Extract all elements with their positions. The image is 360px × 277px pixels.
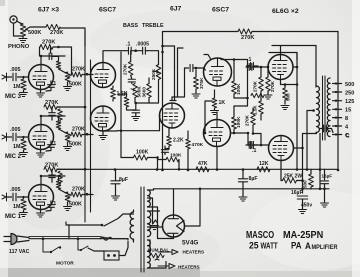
svg-text:.005: .005 — [10, 127, 21, 133]
wire 270K top to tube plate node — [40, 46, 72, 75]
label .1 lower — [252, 148, 256, 154]
label HEATERS one — [183, 250, 205, 255]
tone bottom capacitor — [132, 103, 140, 121]
tube 6SC7 inverter lower — [204, 120, 231, 147]
svg-text:A: A — [305, 241, 311, 252]
wire 270K to channel bus — [60, 28, 85, 46]
wire inter bus y166.3 — [57, 168, 86, 171]
plate resistor MIC 3 — [40, 55, 65, 73]
svg-text:500K: 500K — [28, 30, 41, 36]
wire inverter grid feed — [204, 101, 212, 134]
tube 6J7 MIC 3 — [29, 65, 54, 90]
tap 125 — [333, 99, 355, 105]
wire B plus rail A — [57, 168, 338, 171]
tube 6L6G upper — [268, 55, 293, 80]
tube 6SC7a lower — [91, 106, 116, 131]
coupling cap inter y104 — [49, 107, 55, 120]
svg-text:100K: 100K — [136, 150, 149, 156]
svg-text:.0005: .0005 — [136, 42, 149, 48]
svg-text:3600: 3600 — [142, 87, 147, 98]
svg-text:2.2K: 2.2K — [173, 138, 184, 144]
svg-text:470K: 470K — [192, 142, 204, 148]
svg-text:WATT: WATT — [261, 243, 279, 251]
svg-text:25K 2W: 25K 2W — [284, 174, 302, 180]
svg-text:270K: 270K — [270, 80, 275, 92]
wire B+ feeds — [306, 109, 322, 189]
output transformer core — [323, 76, 326, 140]
wire screen top link — [269, 53, 297, 61]
label 270K inter y166.3 — [45, 162, 58, 168]
label .1 MIC 1 — [52, 201, 56, 207]
label .005 MIC 3 — [10, 67, 21, 73]
svg-text:8µF: 8µF — [119, 177, 128, 183]
label 100K upper vert — [236, 83, 242, 95]
label 3600 vert — [142, 87, 147, 98]
svg-text:270K: 270K — [245, 114, 250, 126]
wire 6SC7 plate to coupling — [217, 60, 248, 134]
fuse holder — [88, 242, 128, 261]
wire mid drops — [216, 147, 218, 170]
svg-text:MIC 1: MIC 1 — [5, 214, 22, 220]
screen resistor 500 — [281, 85, 289, 110]
svg-text:MIC 3: MIC 3 — [5, 94, 22, 100]
cathode resistor 1.5K 6SC7 — [111, 86, 116, 101]
phono jack J4 — [10, 16, 21, 23]
svg-text:270K: 270K — [45, 162, 58, 168]
capacitor .0005 treble — [134, 47, 147, 54]
svg-text:270K: 270K — [72, 67, 85, 73]
plate bypass cap phono — [49, 47, 57, 60]
wire mixing bus — [84, 30, 91, 222]
coupling capacitor .005 MIC 3 — [7, 73, 23, 81]
tube 6J7 driver — [160, 103, 185, 128]
svg-text:500K: 500K — [69, 202, 82, 208]
power transformer rectifier fil winding — [148, 211, 151, 237]
wire bus to 6SC7 grids — [103, 51, 125, 63]
label 270K mix MIC 3 — [72, 67, 85, 73]
svg-text:250: 250 — [345, 90, 354, 96]
wire 6L6 cathode upper — [281, 80, 299, 86]
svg-text:125: 125 — [345, 99, 354, 105]
power transformer primary — [130, 210, 133, 242]
volume pot 500K MIC 2 — [64, 132, 72, 151]
label 6J7 second — [170, 6, 182, 13]
label 270K bias b vert — [270, 80, 275, 92]
label .1 MIC 3 — [52, 81, 56, 87]
label MIC 1 — [5, 214, 22, 220]
wire screen rail — [293, 53, 298, 170]
capacitor 16uF one — [297, 196, 307, 214]
svg-text:6J7 ×3: 6J7 ×3 — [38, 7, 59, 14]
svg-text:HEATERS: HEATERS — [183, 250, 205, 255]
plate resistor 100K lower — [232, 106, 237, 133]
wire AC line — [29, 237, 133, 240]
tube 6L6G lower — [269, 136, 294, 161]
label .1 MIC 2 — [52, 141, 56, 147]
resistor 270K bias lower — [251, 108, 256, 135]
svg-text:270K: 270K — [122, 63, 127, 75]
grid resistor 1M MIC 2 — [20, 137, 28, 157]
svg-text:450v: 450v — [301, 203, 312, 209]
tube 6SC7a upper — [91, 63, 116, 88]
svg-text:270K: 270K — [50, 30, 63, 36]
resistor 270K phono series — [46, 24, 60, 29]
label 270K bias c vert — [245, 114, 250, 126]
label 450v — [301, 203, 312, 209]
wire cap to grid MIC 1 — [22, 196, 28, 198]
resistor 270K bias upper b — [264, 67, 272, 99]
wire top rail drop — [337, 32, 340, 172]
tap 500 — [333, 82, 355, 88]
heater arrow two — [158, 264, 175, 269]
svg-text:500: 500 — [303, 180, 308, 188]
label 100K filter 1 — [136, 150, 149, 156]
label 270K mix MIC 1 — [72, 187, 85, 193]
tube 6J7 MIC 2 — [29, 125, 54, 150]
label 16uF one — [291, 190, 303, 196]
svg-text:MIC 2: MIC 2 — [5, 154, 22, 160]
resistor 100K filter 1 — [134, 155, 158, 160]
resistor 270K bias upper a — [259, 67, 264, 91]
cathode resistor 1K — [211, 90, 219, 115]
feedback capacitor — [320, 125, 333, 132]
title line 2 — [249, 240, 338, 252]
wire tone links — [127, 80, 159, 111]
wire upper plate rail — [272, 46, 316, 88]
fuse on line — [100, 237, 128, 240]
label 500K MIC 1 — [69, 202, 82, 208]
svg-text:6L6G ×2: 6L6G ×2 — [272, 8, 299, 15]
tap 15 — [333, 108, 352, 114]
cathode capacitor MIC 1 — [46, 201, 54, 211]
svg-text:.1: .1 — [52, 141, 56, 147]
label 6L6G x2 — [272, 8, 299, 15]
treble pot 250K — [147, 51, 161, 80]
svg-text:6J7: 6J7 — [170, 6, 182, 13]
ground phono pot — [19, 36, 27, 43]
label 1M MIC 3 — [13, 84, 21, 90]
coupling cap 6J7 to inverter — [190, 64, 199, 71]
svg-text:1M: 1M — [13, 144, 21, 150]
wire plug vertical — [68, 225, 70, 239]
label 6J7 x3 — [38, 7, 59, 14]
wire tone to driver top cap — [161, 45, 176, 101]
wire rectifier output — [174, 189, 201, 226]
hum balance pot — [148, 240, 167, 268]
resistor 3600 — [147, 78, 152, 98]
svg-text:.005: .005 — [10, 67, 21, 73]
mix resistor 270K MIC 2 — [71, 132, 93, 137]
label 25K 2W — [284, 174, 302, 180]
svg-text:8: 8 — [345, 116, 348, 122]
wire 6J7 plate lead — [172, 68, 189, 100]
bass mid capacitor — [128, 75, 135, 83]
svg-text:16µF: 16µF — [322, 174, 333, 179]
power transformer heater winding — [148, 240, 151, 268]
tube ground MIC 1 — [37, 210, 45, 218]
label 6SC7 first — [99, 7, 116, 14]
label 270K bass vert — [122, 63, 127, 75]
resistor 500 ohm — [309, 169, 314, 189]
coupling capacitor .005 MIC 2 — [7, 133, 23, 141]
wire cap to grid MIC 2 — [22, 136, 28, 138]
svg-text:TREBLE: TREBLE — [142, 23, 164, 29]
svg-text:47K: 47K — [198, 161, 208, 167]
label 500K MIC 3 — [69, 82, 82, 88]
label 500K — [28, 30, 41, 36]
resistor 25K 2W — [281, 161, 304, 184]
svg-text:270K: 270K — [42, 40, 55, 46]
resistor 375K inverter grid — [192, 67, 200, 98]
resistor 270K inter at y104 — [44, 104, 57, 109]
svg-text:270K: 270K — [241, 35, 254, 41]
svg-text:375K: 375K — [199, 77, 205, 89]
potentiometer R1 500K — [20, 24, 34, 36]
label 1M MIC 2 — [13, 144, 21, 150]
label 1M MIC 1 — [13, 204, 21, 210]
tube 6SC7 inverter upper — [204, 58, 232, 86]
label 270K bias a vert — [253, 80, 258, 92]
label 270K top rail — [241, 35, 254, 41]
volume pot 500K MIC 3 — [64, 72, 72, 91]
label C feedback — [346, 133, 351, 139]
svg-text:.1: .1 — [52, 201, 56, 207]
svg-text:270K: 270K — [72, 187, 85, 193]
wire fil winding to tube — [148, 211, 163, 227]
coupling cap .1 lower — [248, 141, 258, 148]
grid cap lower 6L6 — [246, 134, 268, 149]
input jack MIC 1 — [2, 193, 7, 201]
wire AC upper branch — [66, 214, 134, 226]
resistor 1M inter y104 — [57, 107, 62, 123]
label 1.5K bias vert — [253, 105, 258, 115]
resistor 270K grid top — [40, 44, 53, 49]
label 117 VAC — [9, 249, 30, 255]
heater arrow one — [158, 250, 178, 255]
resistor 47K — [196, 167, 209, 172]
svg-text:MPLIFIER: MPLIFIER — [312, 244, 338, 252]
HV center tap ground — [148, 198, 159, 230]
label .005 MIC 2 — [10, 127, 21, 133]
grid resistor 1M MIC 1 — [20, 197, 28, 217]
label 6SC7 second — [212, 7, 229, 14]
label 270K phono — [50, 30, 63, 36]
rectifier tube 5V4G — [163, 215, 185, 237]
ground 6SC7 lower — [99, 131, 107, 140]
wire filter junction — [156, 156, 159, 169]
bias resistor driver — [158, 157, 181, 170]
svg-text:270K: 270K — [253, 80, 258, 92]
power transformer HV winding — [148, 190, 151, 207]
motor switch two — [78, 239, 88, 251]
label HEATERS two — [178, 265, 200, 270]
svg-text:1M: 1M — [13, 204, 21, 210]
label 1.5K — [117, 91, 128, 97]
label 500 ohm vert — [303, 180, 308, 188]
title line 1 — [246, 229, 323, 241]
capacitor 8uF two — [238, 169, 247, 201]
wire HV to plates — [148, 189, 174, 239]
label .1 bass — [126, 42, 130, 48]
svg-text:500: 500 — [286, 93, 291, 101]
label 250K treble vert — [151, 68, 156, 80]
label 375K vert — [199, 77, 205, 89]
svg-text:500K: 500K — [69, 142, 82, 148]
tap 4 — [333, 124, 349, 130]
svg-text:500K: 500K — [69, 82, 82, 88]
svg-text:MA-25PN: MA-25PN — [283, 229, 323, 241]
resistor 470K driver — [186, 131, 191, 171]
wire 6SC7 lower plate down — [103, 130, 117, 132]
label 500K MIC 2 — [69, 142, 82, 148]
label .1 upper — [247, 57, 251, 63]
svg-text:PA: PA — [291, 240, 302, 251]
label .0005 — [136, 42, 149, 48]
volume pot 500K MIC 1 — [64, 192, 72, 211]
svg-text:12K: 12K — [259, 161, 269, 167]
label MOTOR — [56, 260, 74, 266]
mix resistor 270K MIC 3 — [71, 72, 93, 77]
resistor 1.5K bias — [259, 91, 264, 120]
input jack MIC 2 — [2, 133, 7, 141]
svg-text:8µF: 8µF — [249, 176, 258, 182]
wire inverter couplings — [233, 65, 249, 135]
output transformer primary — [316, 86, 319, 134]
svg-text:HEATERS: HEATERS — [178, 265, 200, 270]
wire B plus rail B — [154, 188, 330, 191]
label TREBLE — [142, 23, 164, 29]
svg-text:.1: .1 — [247, 57, 251, 63]
svg-text:MOTOR: MOTOR — [56, 260, 74, 266]
tube 6J7 MIC 1 — [29, 185, 54, 210]
svg-text:5V4G: 5V4G — [182, 240, 198, 247]
wire top rail — [161, 32, 338, 172]
resistor 12K — [257, 167, 270, 172]
svg-text:500: 500 — [345, 82, 354, 88]
svg-text:117 VAC: 117 VAC — [9, 249, 30, 255]
label BASS — [123, 23, 138, 29]
power switch — [43, 239, 61, 254]
svg-text:PHONO: PHONO — [8, 44, 30, 50]
svg-text:15: 15 — [345, 108, 351, 114]
grid cap upper 6L6 — [246, 64, 269, 71]
svg-text:6SC7: 6SC7 — [212, 7, 229, 14]
resistor 1M inter y166.3 — [57, 169, 62, 185]
tap 250 — [333, 90, 355, 96]
wire lower plate to primary — [294, 134, 317, 194]
svg-text:3.5K: 3.5K — [118, 92, 128, 97]
wire inverter grid — [200, 68, 206, 70]
label 270K inter y104 — [45, 100, 58, 106]
coupling cap .1 upper — [248, 62, 259, 69]
svg-text:1M: 1M — [13, 84, 21, 90]
capacitor .1 bass — [125, 47, 135, 54]
label 2.2K driver — [173, 138, 184, 144]
label 12K — [259, 161, 269, 167]
label 5V4G — [182, 240, 198, 247]
wire inter bus y104 — [57, 106, 86, 109]
plate resistor MIC 1 — [40, 175, 65, 193]
svg-text:100K: 100K — [236, 116, 242, 128]
grid resistor 1M MIC 3 — [20, 77, 28, 97]
svg-text:MASCO: MASCO — [246, 229, 274, 240]
label 3.5K tone — [118, 92, 128, 97]
svg-text:.1: .1 — [52, 81, 56, 87]
label 470K — [192, 142, 204, 148]
coupling cap inter y166.3 — [49, 169, 55, 182]
bass pot 270K — [128, 51, 133, 76]
resistor 270K inter at y166.3 — [44, 167, 57, 172]
plate resistor MIC 2 — [40, 115, 65, 133]
svg-text:500K: 500K — [136, 86, 141, 98]
capacitor 8uF one — [111, 169, 120, 200]
svg-text:25: 25 — [249, 240, 259, 251]
wire first stage to driver grid — [117, 116, 160, 131]
label 270K grid top — [42, 40, 55, 46]
label MIC 2 — [5, 154, 22, 160]
label .005 MIC 1 — [10, 187, 21, 193]
label 270K mix MIC 2 — [72, 127, 85, 133]
plate resistor 100K upper — [232, 58, 237, 98]
resistor bias mid — [251, 93, 264, 97]
cathode resistor 2.2K driver — [167, 128, 172, 149]
svg-text:100K: 100K — [236, 83, 242, 95]
capacitor 16uF two — [321, 169, 329, 207]
label HUM BAL — [148, 248, 169, 253]
svg-text:BASS: BASS — [123, 23, 138, 29]
resistor 270K top rail — [238, 29, 252, 34]
grid cap lead 6SC7 — [204, 55, 211, 60]
label MIC 3 — [5, 94, 22, 100]
label 500 screen vert — [286, 93, 291, 101]
label PHONO — [8, 44, 30, 50]
power transformer core — [141, 187, 144, 272]
tube ground MIC 3 — [37, 90, 45, 98]
cathode capacitor MIC 2 — [46, 141, 54, 151]
svg-text:.1: .1 — [126, 42, 130, 48]
svg-text:C: C — [345, 133, 349, 139]
label 16uF two — [322, 174, 333, 179]
label 1K — [219, 100, 226, 106]
wire jack to pot — [14, 23, 24, 36]
tap 8 — [333, 116, 349, 122]
label 100K driver — [170, 153, 182, 159]
svg-text:270K: 270K — [72, 127, 85, 133]
svg-text:250K: 250K — [151, 68, 156, 80]
wire pot wiper to 270K — [34, 26, 46, 28]
svg-text:6SC7: 6SC7 — [99, 7, 116, 14]
cathode capacitor MIC 3 — [46, 81, 54, 91]
wire driver top cap second — [178, 48, 184, 97]
AC plug — [4, 234, 29, 245]
mix resistor 270K MIC 1 — [71, 192, 93, 197]
input jack MIC 3 — [2, 73, 7, 81]
wire inverter lower plate — [247, 132, 250, 145]
svg-text:.1: .1 — [252, 148, 256, 154]
resistor 3.5K tone — [124, 93, 129, 107]
label 8uF two — [249, 176, 258, 182]
wire bus bottom to switch rail — [65, 222, 67, 224]
tap C — [333, 133, 349, 139]
coupling capacitor .005 MIC 1 — [7, 193, 23, 201]
label 100K lower vert — [236, 116, 242, 128]
bass pot 500K — [131, 84, 137, 98]
output transformer secondary — [327, 78, 330, 137]
svg-text:1K: 1K — [219, 100, 226, 106]
svg-text:16µF: 16µF — [291, 190, 303, 196]
wire cap to grid MIC 3 — [22, 76, 28, 78]
label 500K bass vert — [136, 86, 141, 98]
